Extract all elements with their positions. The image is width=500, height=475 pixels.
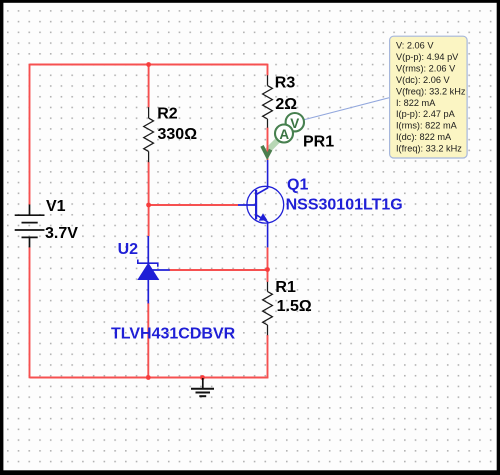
wire junction to R1 — [267, 270, 269, 283]
node junction ground bottom rail — [200, 375, 205, 380]
wire R2 branch top (rail to R2) — [148, 65, 150, 108]
svg-text:V(p-p): 4.94 pV: V(p-p): 4.94 pV — [396, 52, 459, 62]
svg-text:NSS30101LT1G: NSS30101LT1G — [286, 197, 403, 214]
wire R3 bottom to Q1 collector — [267, 128, 269, 161]
wire bottom rail — [30, 377, 269, 379]
resistor R3 — [263, 75, 273, 127]
svg-text:I: 822 mA: I: 822 mA — [396, 98, 436, 108]
svg-text:TLVH431CDBVR: TLVH431CDBVR — [111, 325, 236, 342]
svg-text:R1: R1 — [275, 279, 296, 296]
ground — [191, 378, 214, 396]
wire Q1 emitter to junction — [267, 247, 269, 269]
node junction top rail R2 — [146, 62, 151, 67]
wire left branch lower (V1 to bottom rail) — [29, 247, 31, 378]
battery V1 symbol — [15, 205, 45, 248]
svg-text:3.7V: 3.7V — [45, 225, 78, 242]
wire top rail — [30, 64, 268, 66]
wire U2 ref to R1 junction — [170, 269, 268, 271]
svg-text:I(freq): 33.2 kHz: I(freq): 33.2 kHz — [396, 144, 462, 154]
wire R1 bottom to bottom rail — [267, 335, 269, 378]
svg-text:V1: V1 — [46, 198, 66, 215]
svg-text:A: A — [279, 127, 289, 142]
wire left branch upper (V1 to top rail) — [29, 64, 31, 205]
svg-text:U2: U2 — [118, 241, 139, 258]
svg-text:V(dc): 2.06 V: V(dc): 2.06 V — [396, 75, 450, 85]
svg-text:PR1: PR1 — [303, 134, 334, 151]
svg-text:I(dc): 822 mA: I(dc): 822 mA — [396, 132, 452, 142]
svg-text:R2: R2 — [157, 106, 178, 123]
probe PR1 arrow head — [262, 146, 271, 156]
svg-text:I(rms): 822 mA: I(rms): 822 mA — [396, 121, 458, 131]
probe PR1 A circle — [275, 125, 293, 143]
svg-text:R3: R3 — [275, 75, 296, 92]
svg-text:I(p-p): 2.47 pA: I(p-p): 2.47 pA — [396, 109, 456, 119]
svg-text:Q1: Q1 — [287, 176, 308, 193]
wire U2 anode to bottom rail — [147, 303, 149, 378]
wire R3 branch top (rail to R3) — [267, 64, 269, 76]
transistor Q1 — [238, 160, 284, 247]
svg-text:2Ω: 2Ω — [275, 96, 297, 113]
measurement box — [390, 36, 468, 158]
shunt regulator U2 — [138, 236, 170, 303]
svg-text:330Ω: 330Ω — [158, 126, 198, 143]
svg-text:1.5Ω: 1.5Ω — [277, 298, 312, 315]
node junction U2 anode bottom rail — [146, 375, 151, 380]
svg-text:V(rms): 2.06 V: V(rms): 2.06 V — [396, 63, 456, 73]
svg-text:V: 2.06 V: V: 2.06 V — [396, 41, 434, 51]
probe PR1 V circle — [286, 113, 304, 131]
node junction R1 top — [265, 267, 270, 272]
callout line to measurement box — [303, 98, 390, 121]
probe PR1 arrow shaft — [267, 139, 279, 151]
wire R2 bottom to base junction and to U2 — [148, 162, 150, 237]
resistor R1 — [263, 282, 273, 335]
svg-text:V(freq): 33.2 kHz: V(freq): 33.2 kHz — [396, 86, 466, 96]
wire base (junction to Q1) — [149, 204, 238, 206]
node junction base wire — [146, 203, 151, 208]
resistor R2 — [144, 107, 154, 162]
